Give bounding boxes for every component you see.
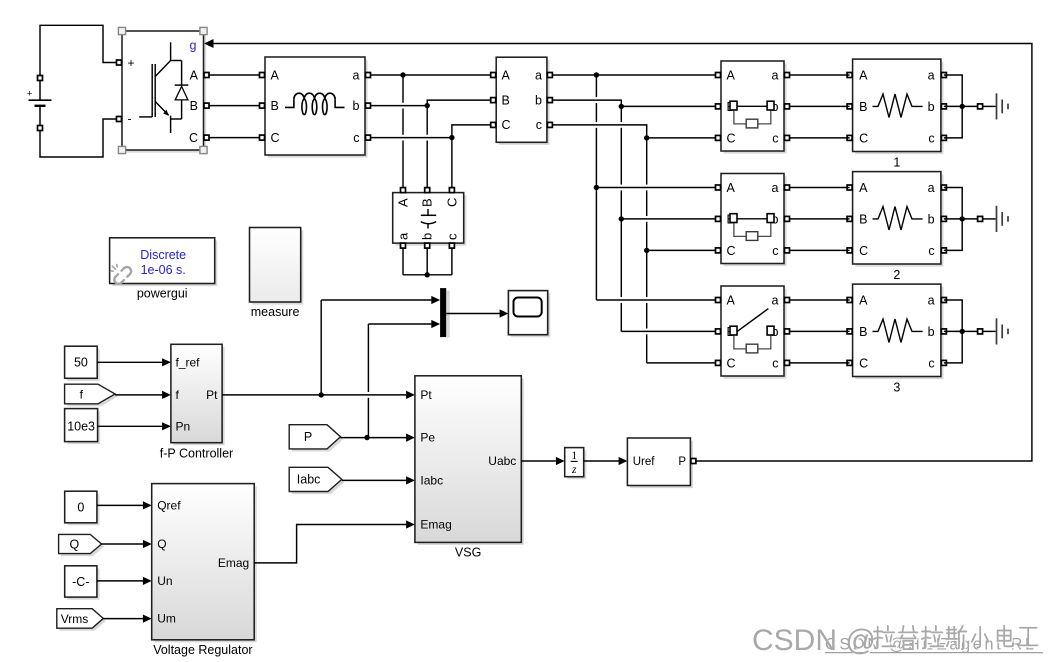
svg-text:C: C <box>444 198 459 207</box>
svg-text:+: + <box>128 56 135 70</box>
svg-text:Q: Q <box>157 537 166 551</box>
svg-text:b: b <box>353 99 360 113</box>
svg-text:0: 0 <box>77 501 84 515</box>
svg-text:C: C <box>859 131 868 145</box>
svg-text:A: A <box>859 181 868 195</box>
svg-text:c: c <box>353 131 359 145</box>
svg-text:A: A <box>395 198 410 207</box>
svg-text:Iabc: Iabc <box>420 474 443 488</box>
svg-text:VSG: VSG <box>455 546 481 560</box>
svg-text:A: A <box>727 68 736 82</box>
svg-text:Emag: Emag <box>218 556 249 570</box>
svg-text:c: c <box>772 131 778 145</box>
svg-text:b: b <box>420 233 435 240</box>
svg-text:Discrete: Discrete <box>140 248 186 262</box>
svg-text:measure: measure <box>251 305 300 319</box>
svg-text:c: c <box>772 244 778 258</box>
svg-text:C: C <box>271 131 280 145</box>
svg-text:c: c <box>444 233 459 240</box>
svg-text:B: B <box>859 100 867 114</box>
svg-text:C: C <box>727 131 736 145</box>
svg-text:Vrms: Vrms <box>61 612 89 626</box>
svg-text:Un: Un <box>157 574 172 588</box>
svg-text:a: a <box>772 293 779 307</box>
svg-text:1e-06 s.: 1e-06 s. <box>141 263 186 277</box>
svg-text:A: A <box>271 68 280 82</box>
svg-text:Pt: Pt <box>206 388 218 402</box>
svg-text:Uabc: Uabc <box>488 454 516 468</box>
svg-text:C: C <box>502 118 511 132</box>
svg-text:b: b <box>928 100 935 114</box>
svg-text:C: C <box>859 356 868 370</box>
svg-text:A: A <box>727 181 736 195</box>
svg-text:A: A <box>502 68 511 82</box>
svg-text:a: a <box>772 68 779 82</box>
svg-text:c: c <box>928 131 934 145</box>
svg-text:10e3: 10e3 <box>67 419 95 433</box>
svg-text:A: A <box>727 293 736 307</box>
svg-text:-C-: -C- <box>72 575 89 589</box>
svg-text:Uref: Uref <box>633 456 656 468</box>
svg-text:50: 50 <box>74 356 88 370</box>
svg-text:P: P <box>678 456 686 468</box>
svg-text:B: B <box>271 99 279 113</box>
svg-text:B: B <box>859 212 867 226</box>
svg-text:a: a <box>928 293 935 307</box>
svg-text:Pn: Pn <box>176 419 191 433</box>
svg-text:a: a <box>772 181 779 195</box>
svg-text:b: b <box>928 212 935 226</box>
svg-text:A: A <box>190 68 199 82</box>
svg-text:f_ref: f_ref <box>176 355 201 369</box>
svg-text:a: a <box>353 68 360 82</box>
svg-text:c: c <box>536 118 542 132</box>
svg-text:c: c <box>928 244 934 258</box>
svg-text:z: z <box>571 464 577 476</box>
svg-text:-: - <box>128 112 132 126</box>
svg-text:b: b <box>928 325 935 339</box>
svg-text:Pe: Pe <box>420 431 435 445</box>
svg-text:c: c <box>772 356 778 370</box>
svg-text:2: 2 <box>893 268 900 282</box>
svg-text:+: + <box>27 89 33 100</box>
svg-text:B: B <box>190 99 198 113</box>
svg-text:A: A <box>859 68 868 82</box>
svg-text:Iabc: Iabc <box>297 473 321 487</box>
svg-text:B: B <box>859 325 867 339</box>
svg-text:b: b <box>535 93 542 107</box>
svg-text:powergui: powergui <box>137 287 188 301</box>
svg-text:Voltage Regulator: Voltage Regulator <box>153 643 252 657</box>
svg-text:C: C <box>859 244 868 258</box>
svg-text:c: c <box>928 356 934 370</box>
svg-text:B: B <box>420 198 435 207</box>
svg-text:a: a <box>928 68 935 82</box>
svg-text:A: A <box>859 293 868 307</box>
svg-text:f-P Controller: f-P Controller <box>160 447 233 461</box>
svg-text:CSDN @: CSDN @ <box>752 624 876 657</box>
svg-text:1: 1 <box>893 156 900 170</box>
svg-text:Qref: Qref <box>157 498 181 512</box>
svg-text:a: a <box>928 181 935 195</box>
svg-text:g: g <box>190 39 197 53</box>
svg-text:Q: Q <box>70 537 80 551</box>
svg-text:3: 3 <box>893 381 900 395</box>
svg-text:B: B <box>502 93 510 107</box>
svg-text:C: C <box>189 131 198 145</box>
svg-text:a: a <box>535 68 542 82</box>
svg-text:Emag: Emag <box>420 518 451 532</box>
svg-text:C: C <box>727 356 736 370</box>
svg-text:1: 1 <box>571 450 577 462</box>
svg-text:Um: Um <box>157 612 176 626</box>
svg-text:P: P <box>304 430 312 444</box>
svg-text:C: C <box>727 244 736 258</box>
svg-text:Pt: Pt <box>420 388 432 402</box>
svg-text:a: a <box>395 232 410 240</box>
